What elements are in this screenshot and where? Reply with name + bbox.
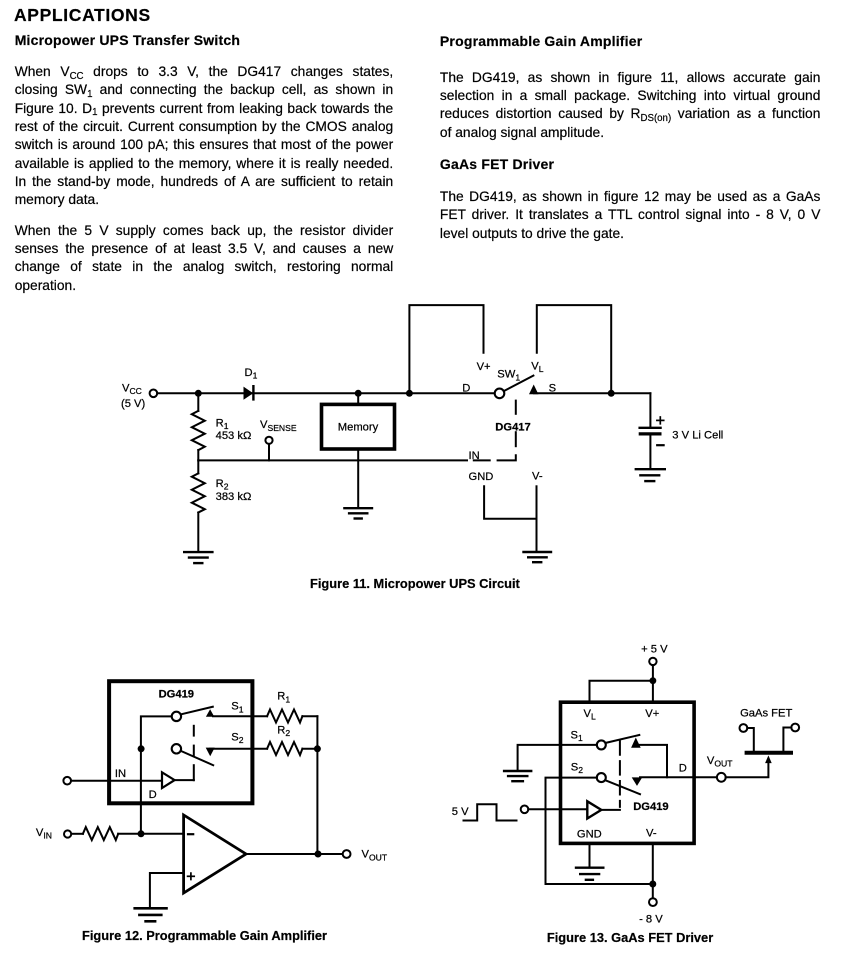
wire S2 to R2 — [210, 748, 267, 750]
switch S1 pole — [172, 712, 181, 721]
ground battery — [636, 469, 665, 481]
wire S1 to R1 — [213, 715, 267, 717]
terminal VCC — [150, 390, 158, 398]
wire sense line — [198, 459, 467, 461]
wire non-inverting input — [150, 873, 183, 906]
switch S2 throw contact — [632, 777, 643, 786]
wire GND pin — [484, 486, 536, 519]
svg-text:S2: S2 — [571, 762, 583, 776]
wire GND pin — [589, 845, 591, 866]
switch S2 throw contact — [206, 748, 215, 757]
terminal VOUT — [717, 773, 726, 782]
svg-text:S1: S1 — [571, 729, 583, 743]
driver amplifier — [587, 801, 601, 818]
wire output — [248, 853, 343, 855]
junction divider tap — [195, 390, 202, 397]
label op-amp plus — [188, 873, 195, 879]
svg-text:V-: V- — [646, 828, 657, 840]
label battery plus — [657, 417, 664, 424]
svg-text:VOUT: VOUT — [362, 849, 388, 863]
battery 3V cell — [640, 428, 661, 468]
wire V- pin — [536, 486, 538, 551]
wire S2 return loop — [546, 778, 653, 884]
driver amplifier — [162, 772, 175, 788]
wire to op-amp inverting input — [118, 833, 182, 835]
switch S1 lever — [606, 735, 640, 743]
wire VL loop — [537, 305, 611, 393]
wire feedback vertical — [316, 716, 318, 854]
ground S1 — [504, 771, 531, 781]
svg-text:- 8 V: - 8 V — [639, 914, 663, 926]
switch S1 throw contact — [206, 709, 214, 717]
svg-text:IN: IN — [469, 450, 480, 462]
svg-text:R2: R2 — [277, 724, 290, 738]
resistor R2 — [267, 742, 302, 755]
terminal logic input — [521, 806, 529, 814]
wire main rail right of switch — [534, 392, 650, 394]
label R1 value — [216, 417, 252, 442]
wire main rail left of switch — [157, 392, 495, 394]
svg-text:S2: S2 — [231, 732, 243, 746]
junction inverting input — [138, 830, 145, 837]
gate arrow — [765, 755, 772, 763]
junction S node — [608, 390, 615, 397]
terminal IN — [63, 777, 71, 785]
svg-text:383 kΩ: 383 kΩ — [216, 491, 252, 503]
svg-text:IN: IN — [115, 768, 126, 780]
svg-text:V+: V+ — [645, 708, 659, 720]
wire D to output — [640, 776, 717, 778]
svg-text:D1: D1 — [245, 367, 258, 381]
switch S1 throw contact — [631, 738, 641, 748]
junction output feedback — [315, 851, 322, 858]
svg-text:DG419: DG419 — [159, 688, 194, 700]
IC DG419 box — [109, 681, 252, 803]
svg-text:VCC: VCC — [122, 383, 142, 397]
junction memory — [355, 390, 362, 397]
IC DG419 box — [561, 702, 695, 843]
svg-text:VSENSE: VSENSE — [260, 419, 297, 433]
wire R1 to feedback — [302, 715, 317, 717]
wire +5V to V+ pin — [652, 665, 654, 700]
switch SW1 pole — [495, 389, 505, 399]
switch S2 pole — [172, 744, 181, 753]
terminal VOUT — [343, 850, 351, 858]
switch S2 lever — [181, 751, 213, 765]
svg-text:S: S — [549, 382, 556, 394]
diode D1 — [244, 386, 254, 400]
switch SW1 lever — [504, 376, 534, 391]
svg-text:(5 V): (5 V) — [121, 398, 146, 410]
resistor R2 — [192, 460, 205, 551]
switch S1 lever — [181, 707, 213, 715]
svg-text:V-: V- — [532, 471, 543, 483]
svg-text:Memory: Memory — [338, 421, 379, 433]
wire gate — [726, 763, 769, 778]
svg-text:DG417: DG417 — [495, 421, 530, 433]
ground GND pin — [576, 868, 603, 880]
junction feedback R2 — [314, 745, 321, 752]
svg-text:5 V: 5 V — [452, 806, 469, 818]
junction +5V — [650, 677, 657, 684]
dashed control line — [474, 401, 516, 461]
wire driver out — [603, 809, 620, 811]
wire R2 out — [302, 748, 317, 750]
svg-text:SW1: SW1 — [497, 369, 520, 383]
junction -8V — [649, 881, 656, 888]
junction S2 common — [138, 745, 145, 752]
svg-text:D: D — [149, 789, 157, 801]
switch S1 pole — [597, 740, 606, 749]
svg-text:453 kΩ: 453 kΩ — [216, 430, 252, 442]
op-amp U1 — [184, 815, 246, 893]
wire VL feed — [590, 681, 653, 701]
svg-text:V+: V+ — [477, 361, 491, 373]
svg-text:GND: GND — [469, 471, 494, 483]
label op-amp minus — [188, 833, 193, 835]
FET source terminal — [740, 724, 754, 751]
wire memory supply stub — [357, 393, 359, 402]
svg-text:R2: R2 — [216, 478, 229, 492]
wire driver out — [176, 779, 194, 781]
wire battery branch — [649, 393, 651, 426]
pulse waveform — [464, 804, 517, 820]
wire S1/S2 common to inverting node — [141, 716, 171, 833]
svg-text:VIN: VIN — [36, 827, 52, 841]
svg-text:D: D — [679, 762, 687, 774]
resistor R1 — [267, 710, 302, 723]
FET drain terminal — [783, 724, 799, 751]
label R2 value — [216, 478, 252, 503]
wire VIN stub — [72, 833, 83, 835]
memory box — [322, 404, 395, 449]
ground op-amp — [135, 908, 167, 921]
ground divider — [184, 552, 212, 563]
node VCC label — [121, 383, 146, 411]
wire V+ loop — [409, 305, 483, 393]
svg-text:R1: R1 — [277, 691, 290, 705]
switch S2 lever — [606, 780, 641, 794]
terminal VSENSE — [265, 437, 272, 461]
dashed control line — [193, 726, 195, 780]
dashed control line — [619, 741, 621, 807]
resistor input — [83, 827, 118, 840]
svg-text:S1: S1 — [231, 701, 243, 715]
svg-text:GaAs FET: GaAs FET — [740, 708, 792, 720]
switch SW1 throw contact — [529, 385, 538, 395]
svg-text:3 V Li Cell: 3 V Li Cell — [672, 429, 723, 441]
FET channel bar — [747, 751, 791, 755]
junction V+ loop — [406, 390, 413, 397]
label battery minus — [657, 444, 663, 446]
captions — [310, 576, 520, 591]
resistor R1 — [192, 393, 205, 460]
svg-text:+ 5 V: + 5 V — [641, 644, 668, 656]
ground memory — [344, 508, 372, 518]
terminal VIN — [64, 830, 71, 837]
switch S2 pole — [597, 773, 606, 782]
ground V- — [524, 552, 552, 562]
svg-text:VOUT: VOUT — [707, 755, 733, 769]
svg-text:D: D — [462, 382, 470, 394]
wire V- pin — [652, 845, 654, 898]
wire S1 out to D — [639, 745, 667, 777]
svg-text:GND: GND — [577, 829, 602, 841]
wire S1 to ground — [518, 745, 597, 770]
svg-text:DG419: DG419 — [633, 801, 668, 813]
wire IN — [71, 780, 162, 782]
svg-text:R1: R1 — [216, 417, 229, 431]
terminal +5V — [649, 658, 656, 665]
wire memory ground stub — [357, 451, 359, 507]
svg-text:VL: VL — [584, 708, 596, 722]
svg-text:VL: VL — [531, 360, 543, 374]
terminal -8V — [649, 898, 657, 906]
wire driver input — [528, 808, 587, 810]
